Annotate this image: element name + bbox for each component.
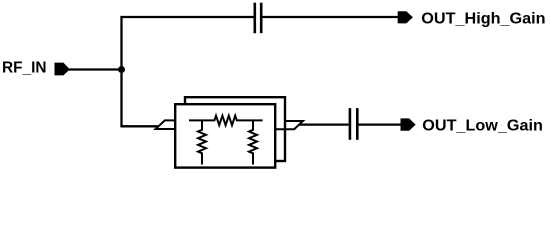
attenuator back box xyxy=(185,97,285,161)
attenuator front box xyxy=(175,104,275,167)
pin arrow output pennant xyxy=(276,121,303,129)
wire C2 to OUT_Low_Gain xyxy=(359,123,402,125)
wire top branch left xyxy=(122,16,254,18)
resistor R3 shunt right xyxy=(249,120,257,164)
wire C1 to OUT_High_Gain xyxy=(262,16,398,18)
wire RF_IN to junction xyxy=(69,68,123,70)
resistor R2 shunt left xyxy=(198,120,206,164)
port symbol OUT_High_Gain xyxy=(398,11,413,23)
wire main vertical xyxy=(120,16,122,128)
wire attenuator to C2 xyxy=(300,123,349,125)
svg-text:RF_IN: RF_IN xyxy=(2,60,47,77)
pin arrow input pennant xyxy=(156,120,177,129)
rail wire with series resistor R1 xyxy=(189,116,263,126)
node junction xyxy=(118,66,125,73)
svg-text:OUT_Low_Gain: OUT_Low_Gain xyxy=(422,117,543,134)
capacitor C1 high-gain path xyxy=(255,3,261,34)
svg-text:OUT_High_Gain: OUT_High_Gain xyxy=(421,10,545,27)
capacitor C2 low-gain path xyxy=(350,108,357,140)
port symbol RF_IN xyxy=(55,63,70,76)
port symbol OUT_Low_Gain xyxy=(401,118,416,130)
wire bottom branch to attenuator xyxy=(122,125,159,127)
